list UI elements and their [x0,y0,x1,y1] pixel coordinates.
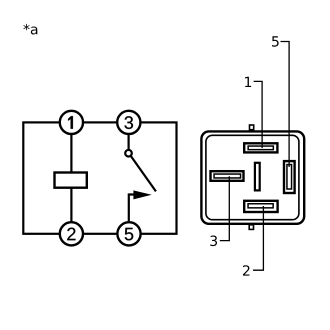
pin 5 label [125,228,134,241]
wire coil branch [70,122,72,233]
pin 1 label [68,116,73,129]
terminal slot 3 outer [211,171,244,181]
leader line 1 [254,81,263,148]
terminal label 1 [245,77,251,87]
pin circle 1 [60,111,83,134]
pin circle 3 [117,111,140,134]
leader line 2 [253,206,263,270]
relay body outer [201,131,304,223]
switch blade [131,156,156,191]
terminal label 2 [243,265,249,275]
terminal slot 1 outer [244,143,277,152]
pin 2 label [67,228,75,241]
terminal slot 3 inner [214,174,241,178]
leader line 3 [220,176,230,240]
terminal slot 2 outer [244,201,277,212]
pin circle 2 [60,222,83,245]
terminal slot 5 inner [287,165,292,189]
center key slot [255,163,260,191]
wire from pin 5 [129,195,135,222]
terminal slot 2 inner [248,204,273,208]
terminal label 3 [210,236,217,247]
pin 3 label [124,116,133,129]
bottom key tab [249,225,253,230]
wire from pin 3 [128,122,130,149]
terminal slot 1 inner [248,146,273,150]
pin circle 5 [117,222,140,245]
top key tab [250,125,254,130]
switch arrow [133,190,151,199]
terminal label 5 [272,36,279,46]
relay coil L1 [55,173,87,188]
leader line 5 [281,42,290,168]
terminal slot 5 outer [284,161,295,193]
wire loop rectangle [23,122,176,233]
note *a [23,24,37,35]
switch pivot contact [125,150,132,157]
relay body inner [206,135,299,219]
